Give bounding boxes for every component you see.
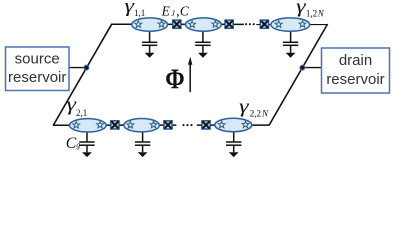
- wire bottom chain: [53, 124, 269, 126]
- svg-text:source: source: [15, 51, 60, 68]
- capacitor C island 1,2 with ground: [195, 31, 210, 58]
- svg-text:reservoir: reservoir: [326, 71, 384, 88]
- josephson junction top 1 (EJ,C): [173, 20, 181, 28]
- wire drain lead: [302, 67, 322, 69]
- svg-text:1,1: 1,1: [134, 8, 145, 18]
- capacitor Cg island 2,2 with ground: [135, 131, 150, 157]
- label gamma 2,1: [67, 95, 88, 118]
- island ellipse 2,2N: [215, 118, 252, 131]
- svg-text:γ: γ: [239, 96, 249, 117]
- island ellipse 1,2N: [271, 18, 310, 31]
- svg-text:C: C: [180, 4, 190, 19]
- node source junction: [84, 65, 89, 70]
- island ellipse 2,2: [124, 119, 160, 132]
- wire top chain: [112, 23, 328, 25]
- wire right diagonal: [269, 24, 328, 126]
- svg-text:C: C: [66, 135, 77, 152]
- island ellipse 1,2: [186, 18, 222, 31]
- capacitor C island 1,1 with ground: [142, 31, 157, 58]
- capacitor Cg island 2,2N with ground: [226, 131, 241, 157]
- wire gap for bottom ellipsis: [176, 123, 196, 126]
- svg-text:Φ: Φ: [165, 64, 184, 96]
- label gamma 2,2N: [239, 96, 269, 118]
- wire left diagonal: [53, 24, 112, 126]
- wire gap for top ellipsis: [244, 23, 256, 26]
- capacitor Cg island 2,1 with ground: [79, 131, 94, 157]
- svg-text:E: E: [161, 3, 171, 18]
- svg-text:2,1: 2,1: [76, 108, 87, 118]
- flux arrow: [188, 57, 192, 92]
- josephson junction bottom 3: [202, 121, 210, 129]
- svg-text:N: N: [261, 109, 269, 119]
- josephson junction top 3: [260, 20, 268, 28]
- svg-text:reservoir: reservoir: [8, 69, 66, 86]
- svg-text:1,2: 1,2: [306, 8, 317, 18]
- dots bottom ellipsis: [182, 124, 192, 126]
- svg-text:γ: γ: [296, 0, 306, 18]
- island ellipse 1,1: [132, 18, 168, 31]
- svg-text:g: g: [76, 140, 80, 149]
- capacitor C island 1,2N with ground: [283, 31, 298, 58]
- source reservoir box: [6, 47, 70, 91]
- label EJ,C: [161, 3, 190, 18]
- josephson junction bottom 1: [111, 121, 119, 129]
- node drain junction: [300, 65, 305, 70]
- label gamma 1,1: [125, 0, 146, 18]
- label gamma 1,2N: [296, 0, 325, 18]
- island ellipse 2,1: [70, 119, 107, 132]
- label Cg: [66, 135, 80, 152]
- wire source lead: [69, 67, 88, 69]
- svg-text:N: N: [317, 8, 325, 18]
- josephson junction bottom 2: [164, 121, 172, 129]
- svg-text:2,2: 2,2: [250, 109, 261, 119]
- josephson junction top 2: [225, 20, 233, 28]
- drain reservoir box: [322, 48, 390, 93]
- svg-text:J: J: [171, 9, 175, 18]
- svg-text:drain: drain: [339, 52, 372, 69]
- dots top ellipsis: [245, 23, 255, 25]
